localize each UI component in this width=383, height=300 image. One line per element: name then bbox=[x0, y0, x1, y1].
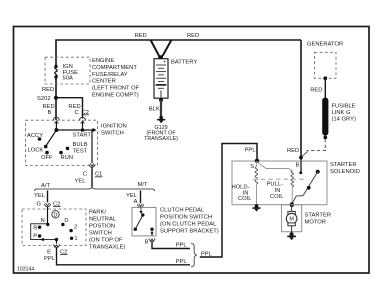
svg-text:RED: RED bbox=[187, 33, 199, 39]
label STARTER SOLENOID bbox=[330, 162, 360, 175]
label B (clutch bottom) bbox=[145, 240, 149, 246]
svg-text:TEST: TEST bbox=[73, 148, 88, 154]
wire G into N contact bbox=[47, 207, 49, 225]
battery feed V-drop bbox=[151, 40, 172, 59]
brace A/T / M/T split bbox=[35, 187, 155, 191]
label PPL (after brace) bbox=[201, 251, 213, 257]
fusible link G bbox=[322, 98, 328, 136]
label E bbox=[47, 249, 51, 255]
hold-in coil bbox=[255, 161, 258, 205]
node E junction bbox=[55, 238, 58, 241]
label PPL (lower wire) bbox=[176, 259, 188, 265]
svg-text:PARK/: PARK/ bbox=[89, 209, 106, 215]
fuse IGN FUSE 50A bbox=[54, 65, 57, 79]
label RED (right of battery) bbox=[187, 33, 199, 39]
wire PPL from clutch B to brace bbox=[152, 242, 190, 249]
svg-text:FUSIBLE: FUSIBLE bbox=[332, 103, 356, 109]
svg-text:RED: RED bbox=[287, 148, 299, 154]
node 1 bbox=[70, 237, 73, 240]
ground (starter motor) bbox=[287, 232, 296, 240]
ground G129 bbox=[157, 116, 165, 123]
svg-text:IN: IN bbox=[275, 188, 281, 194]
node 2 bbox=[69, 229, 72, 232]
label YEL (A/T branch) bbox=[34, 193, 46, 199]
svg-text:C: C bbox=[75, 110, 79, 116]
svg-text:(14 GRY): (14 GRY) bbox=[332, 116, 356, 122]
wire A/T branch YEL down to PNP switch bbox=[47, 191, 49, 203]
svg-text:OFF: OFF bbox=[41, 155, 53, 161]
label G bbox=[36, 201, 41, 207]
label RED (left of battery) bbox=[135, 33, 147, 39]
ground (hold-in coil) bbox=[252, 204, 260, 212]
connector E C2 at PNP bottom bbox=[54, 244, 60, 247]
svg-text:RED: RED bbox=[310, 87, 322, 93]
svg-text:COIL: COIL bbox=[270, 194, 284, 200]
node M (solenoid output) bbox=[290, 202, 295, 207]
svg-text:S: S bbox=[250, 164, 254, 170]
wire M/T branch YEL down to clutch switch bbox=[140, 191, 142, 204]
label HOLD-IN COIL bbox=[231, 185, 252, 203]
label PULL-IN COIL bbox=[267, 182, 285, 201]
svg-text:ACCY: ACCY bbox=[27, 133, 43, 139]
svg-text:RED: RED bbox=[42, 87, 54, 93]
ignition position contact BULB TEST bbox=[66, 147, 70, 151]
label GENERATOR bbox=[307, 42, 343, 48]
label BULB TEST bbox=[73, 142, 88, 154]
park/neutral position switch dashed box bbox=[22, 209, 86, 246]
connector A into clutch switch bbox=[138, 204, 144, 208]
svg-text:PPL: PPL bbox=[245, 147, 257, 153]
label N bbox=[41, 218, 45, 224]
svg-text:ENGINE: ENGINE bbox=[92, 58, 114, 64]
label YEL (under C) bbox=[75, 178, 87, 184]
svg-text:RUN: RUN bbox=[61, 155, 74, 161]
wire: top RED feed from fuse to battery to solenoid B bbox=[56, 40, 301, 120]
svg-text:P: P bbox=[33, 233, 37, 239]
label 1 bbox=[74, 236, 77, 242]
ignition position contact ACCY bbox=[38, 137, 42, 141]
label RED B (left ignition feed) bbox=[43, 104, 55, 116]
pull-in coil bbox=[291, 171, 294, 205]
label LOCK bbox=[28, 148, 44, 154]
svg-text:STARTER: STARTER bbox=[305, 212, 332, 218]
ignition position contact RUN bbox=[59, 151, 63, 155]
starter motor M1 bbox=[286, 205, 297, 233]
svg-text:PULL-: PULL- bbox=[267, 182, 284, 188]
wire PPL from E to brace bbox=[57, 248, 191, 265]
wire E exit bbox=[56, 240, 58, 244]
svg-text:START: START bbox=[73, 132, 92, 138]
svg-text:M: M bbox=[289, 217, 294, 223]
ignition switch contact bar B-C with arrow bbox=[54, 128, 96, 132]
svg-text:BLK: BLK bbox=[149, 107, 160, 113]
svg-text:(ON CLUTCH PEDAL: (ON CLUTCH PEDAL bbox=[160, 222, 217, 228]
battery B1 bbox=[154, 59, 168, 98]
label ACCY bbox=[27, 133, 43, 139]
label FUSIBLE LINK G (14 GRY) bbox=[332, 103, 356, 122]
label BATTERY bbox=[171, 60, 197, 66]
svg-text:CENTER: CENTER bbox=[92, 79, 116, 85]
ignition switch arm to LOCK bbox=[44, 130, 57, 148]
svg-text:POSTION: POSTION bbox=[89, 223, 115, 229]
mechanical linkage dashed bbox=[253, 178, 307, 180]
svg-text:N: N bbox=[41, 218, 45, 224]
svg-text:IGNITION: IGNITION bbox=[101, 124, 127, 130]
svg-text:E: E bbox=[47, 249, 51, 255]
svg-text:COIL: COIL bbox=[238, 196, 252, 202]
brace joining PPL wires bbox=[191, 244, 197, 267]
wire S202 branch to ignition C terminal bbox=[56, 98, 83, 119]
label G129 (FRONT OF TRANSAXLE) bbox=[144, 125, 178, 142]
border frame bbox=[14, 27, 370, 274]
solenoid contact arm bbox=[292, 170, 320, 205]
circled D indicator bbox=[52, 211, 59, 219]
label START bbox=[73, 132, 92, 138]
label D bbox=[64, 218, 68, 224]
label C2 (PNP top) bbox=[53, 201, 61, 207]
wire dashed link to B terminal bbox=[303, 139, 327, 156]
wire C1 down to A/T-M/T brace bbox=[91, 167, 93, 187]
svg-text:TRANSAXLE): TRANSAXLE) bbox=[89, 244, 125, 250]
wire S to pull-in coil bbox=[257, 162, 292, 171]
svg-text:GENERATOR: GENERATOR bbox=[307, 42, 343, 48]
svg-text:YEL: YEL bbox=[75, 178, 87, 184]
label RUN bbox=[61, 155, 74, 161]
PNP contact bracket (park position) bbox=[31, 224, 57, 241]
svg-text:B: B bbox=[296, 162, 300, 168]
svg-text:B: B bbox=[48, 110, 52, 116]
label A bbox=[134, 199, 138, 205]
generator dashed box bbox=[315, 52, 337, 78]
svg-text:LINK G: LINK G bbox=[332, 110, 351, 116]
ignition position contact OFF bbox=[45, 151, 49, 155]
node fusible link bottom bbox=[323, 136, 327, 140]
label IGNITION SWITCH bbox=[101, 124, 127, 137]
connector G C2 into PNP switch bbox=[45, 203, 51, 207]
connector C2 into ignition switch bbox=[80, 117, 86, 130]
starter solenoid box bbox=[232, 161, 327, 205]
node junction at B riser bbox=[299, 156, 303, 160]
label RED C C2 (right ignition feed) bbox=[68, 104, 89, 116]
ignition switch dashed box bbox=[26, 120, 98, 165]
clutch switch top stub with arrow bbox=[139, 207, 142, 214]
wire B into box bbox=[299, 161, 302, 174]
svg-text:(LEFT FRONT OF: (LEFT FRONT OF bbox=[92, 86, 140, 92]
label RED (generator) bbox=[310, 87, 322, 93]
splice S202 bbox=[54, 96, 58, 100]
label PARK/NEUTRAL POSTION SWITCH bbox=[89, 209, 125, 250]
svg-text:CLUTCH PEDAL: CLUTCH PEDAL bbox=[160, 208, 205, 214]
label C2 (PNP bottom) bbox=[60, 249, 68, 255]
starter motor bracket bbox=[282, 205, 302, 232]
svg-text:103144: 103144 bbox=[17, 266, 34, 272]
node P bbox=[38, 234, 41, 237]
svg-text:R: R bbox=[33, 225, 37, 231]
svg-text:POSITION SWITCH: POSITION SWITCH bbox=[160, 215, 212, 221]
wire generator to fusible link bbox=[324, 78, 326, 99]
label R bbox=[33, 225, 37, 231]
svg-text:BULB: BULB bbox=[73, 142, 88, 148]
svg-text:SUPPORT BRACKET): SUPPORT BRACKET) bbox=[160, 229, 219, 235]
label RED (at B terminal) bbox=[287, 148, 299, 154]
label PPL (at S terminal) bbox=[245, 147, 257, 153]
svg-text:(ON TOP OF: (ON TOP OF bbox=[89, 237, 123, 243]
label M/T bbox=[138, 182, 148, 188]
label PPL (upper wire) bbox=[176, 242, 188, 248]
label IGN FUSE 50A bbox=[63, 64, 79, 81]
clutch switch contact arm bbox=[134, 213, 145, 231]
label C / C1 bbox=[83, 172, 103, 178]
connector B at clutch switch bottom bbox=[149, 238, 155, 241]
label 2 bbox=[74, 224, 77, 230]
svg-text:MOTOR: MOTOR bbox=[305, 219, 326, 225]
label S bbox=[250, 164, 254, 170]
label RED (above S202) bbox=[42, 87, 54, 93]
svg-text:M/T: M/T bbox=[138, 182, 148, 188]
connector B into ignition switch bbox=[53, 117, 59, 130]
svg-text:C: C bbox=[83, 172, 87, 178]
label STARTER MOTOR bbox=[305, 212, 332, 225]
label S202 bbox=[37, 96, 51, 102]
svg-text:A: A bbox=[134, 199, 138, 205]
svg-text:COMPARTMENT: COMPARTMENT bbox=[92, 65, 137, 71]
svg-text:B: B bbox=[145, 240, 149, 246]
label ENGINE COMPARTMENT FUSE/RELAY CENTER bbox=[92, 58, 140, 99]
svg-text:ENGINE COMPT): ENGINE COMPT) bbox=[92, 93, 139, 99]
svg-text:LOCK: LOCK bbox=[28, 148, 44, 154]
svg-text:FUSE/RELAY: FUSE/RELAY bbox=[92, 72, 128, 78]
label YEL (M/T branch) bbox=[126, 193, 138, 199]
svg-text:YEL: YEL bbox=[34, 193, 46, 199]
svg-text:2: 2 bbox=[74, 224, 77, 230]
clutch pedal position switch box bbox=[132, 207, 156, 236]
svg-text:G: G bbox=[36, 201, 41, 207]
wire START output down to C1 bbox=[91, 131, 93, 164]
svg-text:PPL: PPL bbox=[176, 242, 188, 248]
svg-text:S202: S202 bbox=[37, 96, 51, 102]
svg-text:STARTER: STARTER bbox=[330, 162, 357, 168]
svg-text:SOLENOID: SOLENOID bbox=[330, 169, 360, 175]
svg-text:TRANSAXLE): TRANSAXLE) bbox=[144, 136, 178, 142]
node R bbox=[38, 226, 41, 229]
node generator output bbox=[323, 76, 327, 80]
label P bbox=[33, 233, 37, 239]
clutch switch B contact bbox=[150, 228, 153, 237]
node D bbox=[61, 223, 64, 226]
svg-text:PPL: PPL bbox=[44, 256, 56, 262]
label 103144 bbox=[17, 266, 34, 272]
svg-text:SWITCH: SWITCH bbox=[89, 230, 112, 236]
svg-text:BATTERY: BATTERY bbox=[171, 60, 197, 66]
svg-text:NEUTRAL: NEUTRAL bbox=[89, 216, 117, 222]
label CLUTCH PEDAL POSITION SWITCH bbox=[160, 208, 219, 235]
node S terminal bbox=[255, 159, 259, 163]
svg-text:1: 1 bbox=[74, 236, 77, 242]
node N bbox=[46, 223, 49, 226]
svg-text:RED: RED bbox=[135, 33, 147, 39]
wire PPL to starter solenoid S bbox=[200, 144, 257, 258]
wire BLK battery to ground bbox=[160, 100, 162, 117]
label B bbox=[296, 162, 300, 168]
svg-text:D: D bbox=[64, 218, 68, 224]
label A/T bbox=[41, 183, 50, 189]
label OFF bbox=[41, 155, 53, 161]
svg-text:PPL: PPL bbox=[176, 259, 188, 265]
wire RED feed down to solenoid B bbox=[300, 40, 302, 161]
svg-text:SWITCH: SWITCH bbox=[101, 131, 124, 137]
connector C1 at ignition switch bottom bbox=[89, 163, 95, 167]
node: battery negative terminal bbox=[159, 98, 163, 102]
engine compartment fuse/relay center dashed box bbox=[45, 57, 90, 84]
label PPL (PNP output) bbox=[44, 256, 56, 262]
svg-text:D: D bbox=[54, 212, 58, 218]
label BLK bbox=[149, 107, 160, 113]
svg-text:A/T: A/T bbox=[41, 183, 50, 189]
svg-text:50A: 50A bbox=[63, 75, 73, 81]
